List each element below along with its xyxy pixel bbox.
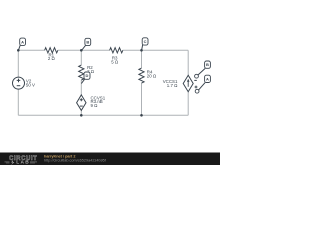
svg-text:B: B xyxy=(206,62,209,67)
svg-text:http://circuitlab.com/c6529a42: http://circuitlab.com/c6529a42z4b95f xyxy=(44,159,107,163)
svg-text:1.7 Ω: 1.7 Ω xyxy=(167,83,178,88)
svg-text:2 Ω: 2 Ω xyxy=(48,56,56,61)
svg-text:C: C xyxy=(144,39,147,44)
svg-text:20 Ω: 20 Ω xyxy=(147,74,157,79)
svg-text:A: A xyxy=(21,39,24,44)
svg-text:D: D xyxy=(86,73,89,78)
svg-text:9 Ω: 9 Ω xyxy=(91,103,99,108)
svg-text:B: B xyxy=(86,40,89,45)
svg-text:50 V: 50 V xyxy=(26,83,35,88)
svg-text:5 Ω: 5 Ω xyxy=(111,60,119,65)
svg-text:LAB: LAB xyxy=(16,160,29,165)
svg-text:A: A xyxy=(206,76,209,81)
